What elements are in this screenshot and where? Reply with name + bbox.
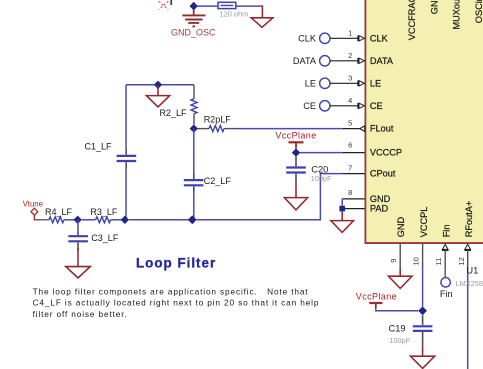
svg-text:12: 12 — [457, 257, 466, 265]
wire (pin5 FLout net) — [236, 128, 343, 130]
svg-text:LE: LE — [305, 78, 316, 88]
svg-text:CE: CE — [303, 101, 316, 111]
svg-text:100pF: 100pF — [311, 174, 332, 183]
resistor 120 ohm (box style) — [218, 2, 248, 18]
svg-text:GND_OSC: GND_OSC — [171, 27, 216, 37]
svg-text:GND: GND — [429, 0, 439, 14]
junction (VccPlane/C20) — [292, 148, 300, 156]
svg-text:DATA: DATA — [293, 56, 317, 66]
IC bottom pin labels (rotated) — [396, 201, 474, 238]
resistor R2pLF (horizontal) — [198, 115, 237, 132]
IC top pin labels (rotated) — [407, 0, 483, 40]
svg-text:MUXout: MUXout — [452, 0, 462, 30]
capacitor C2_LF — [184, 129, 232, 220]
wire — [111, 219, 125, 221]
junction (VccPlane/C19) — [418, 306, 427, 315]
svg-text:4: 4 — [348, 96, 352, 105]
svg-text:7: 7 — [348, 164, 352, 173]
svg-text:6: 6 — [348, 140, 352, 149]
DNI marker X — [159, 1, 169, 10]
svg-text:VCCPL: VCCPL — [419, 207, 429, 238]
svg-text:C4_LF is actually located righ: C4_LF is actually located right next to … — [33, 298, 320, 308]
svg-text:2: 2 — [348, 51, 352, 60]
VccPlane (bottom) power symbol — [356, 291, 397, 308]
svg-text:Fin: Fin — [441, 225, 451, 238]
svg-text:R4_LF: R4_LF — [45, 207, 73, 217]
svg-text:RFoutA+: RFoutA+ — [464, 201, 474, 238]
wire (node to R 120ohm) — [198, 5, 218, 7]
ground (triangle pin9) — [388, 276, 412, 288]
svg-text:filter off noise better.: filter off noise better. — [33, 309, 128, 319]
svg-text:GND: GND — [370, 194, 391, 204]
svg-text:Loop Filter: Loop Filter — [136, 255, 216, 270]
wire (VccPlane to C19 node) — [376, 308, 418, 311]
svg-text:C2_LF: C2_LF — [204, 176, 232, 186]
ground (triangle under top rail) — [146, 85, 169, 107]
ground (triangle pin8) — [331, 211, 354, 232]
svg-text:CE: CE — [370, 101, 383, 111]
pin 10 VCCPL stem — [412, 244, 423, 307]
junction (C1 node) — [121, 216, 129, 224]
wire (bus to pin7 CPout) — [197, 174, 343, 220]
svg-text:The loop filter componets are: The loop filter componets are applicatio… — [33, 286, 309, 296]
svg-text:R2pLF: R2pLF — [204, 115, 232, 125]
junction (C3 node) — [74, 216, 82, 224]
IC left pin labels — [370, 33, 402, 213]
svg-text:C1_LF: C1_LF — [85, 141, 113, 151]
capacitor C20 — [286, 156, 332, 183]
svg-text:CPout: CPout — [370, 169, 396, 179]
ground (triangle under C19) — [411, 346, 435, 369]
svg-text:10: 10 — [412, 257, 421, 265]
port LE — [305, 73, 365, 88]
svg-text:Fin: Fin — [440, 289, 453, 299]
svg-text:CLK: CLK — [298, 33, 317, 43]
capacitor C3_LF — [68, 220, 119, 250]
capacitor C1_LF — [85, 141, 137, 168]
svg-text:C19: C19 — [389, 324, 406, 334]
junction (R2/C2/R2p node) — [190, 124, 198, 132]
svg-text:3: 3 — [348, 73, 352, 82]
port CE — [303, 96, 364, 111]
svg-text:R3_LF: R3_LF — [90, 207, 118, 217]
note paragraph — [33, 286, 320, 319]
port Vtune — [23, 199, 43, 220]
wire (C1 branch vertical) — [125, 85, 127, 149]
junction (C2 node) — [188, 215, 197, 224]
svg-text:OSCin: OSCin — [474, 0, 483, 23]
svg-text:CLK: CLK — [370, 33, 389, 43]
svg-text:11: 11 — [434, 258, 443, 266]
svg-text:VCCCP: VCCCP — [370, 148, 402, 158]
ground (triangle, top right) — [251, 18, 273, 28]
wire (Vtune to R4) — [34, 219, 49, 221]
wire — [64, 219, 78, 221]
component stub (cut off at top) — [170, 0, 172, 5]
ground (triangle under C3) — [66, 248, 90, 278]
port CLK — [298, 28, 364, 43]
ground (triangle under C20) — [284, 183, 307, 210]
svg-text:Vtune: Vtune — [23, 199, 43, 208]
port Fin — [440, 278, 453, 299]
svg-text:5: 5 — [348, 119, 352, 128]
svg-text:U1: U1 — [466, 266, 478, 276]
resistor R3_LF — [82, 207, 118, 223]
svg-text:PAD: PAD — [370, 204, 389, 214]
svg-text:LMX2582: LMX2582 — [456, 279, 483, 288]
svg-text:9: 9 — [389, 259, 398, 263]
svg-text:1: 1 — [348, 28, 352, 37]
pin 12 RFoutA+ — [457, 244, 471, 369]
wire (R to ground) — [236, 5, 263, 7]
resistor R2_LF (vertical) — [160, 85, 198, 125]
svg-text:VccPlane: VccPlane — [275, 131, 316, 141]
wire (C1 to bus) — [125, 169, 127, 220]
VccPlane (mid) power symbol — [275, 131, 316, 148]
svg-text:R2_LF: R2_LF — [160, 108, 188, 118]
wire (bus) — [129, 219, 192, 221]
junction (osc node) — [190, 2, 198, 11]
wire (loop filter top rail) — [126, 84, 194, 86]
resistor R4_LF — [45, 207, 73, 223]
junction (top rail) — [154, 81, 162, 89]
svg-text:GND: GND — [396, 217, 406, 238]
svg-text:DATA: DATA — [370, 56, 394, 66]
svg-text:FLout: FLout — [370, 124, 394, 134]
svg-text:VccPlane: VccPlane — [356, 291, 397, 301]
svg-text:8: 8 — [348, 188, 352, 197]
pin 11 Fin — [434, 244, 448, 277]
svg-text:C3_LF: C3_LF — [91, 233, 119, 243]
pin 9 GND stem — [389, 244, 400, 276]
port DATA — [293, 51, 365, 66]
IC U1 body — [365, 0, 483, 244]
wire (VccPlane to pin6 VCCCP) — [295, 148, 297, 153]
svg-text:VCCFRAC: VCCFRAC — [407, 0, 417, 40]
svg-text:120 ohm: 120 ohm — [220, 10, 249, 19]
capacitor C19 — [389, 315, 433, 346]
svg-text:100pF: 100pF — [389, 336, 410, 345]
pin 5 arrow (output) — [360, 126, 365, 132]
ground GND_OSC — [171, 10, 216, 38]
pin 8 GND/PAD net — [339, 199, 364, 212]
svg-text:LE: LE — [370, 78, 381, 88]
